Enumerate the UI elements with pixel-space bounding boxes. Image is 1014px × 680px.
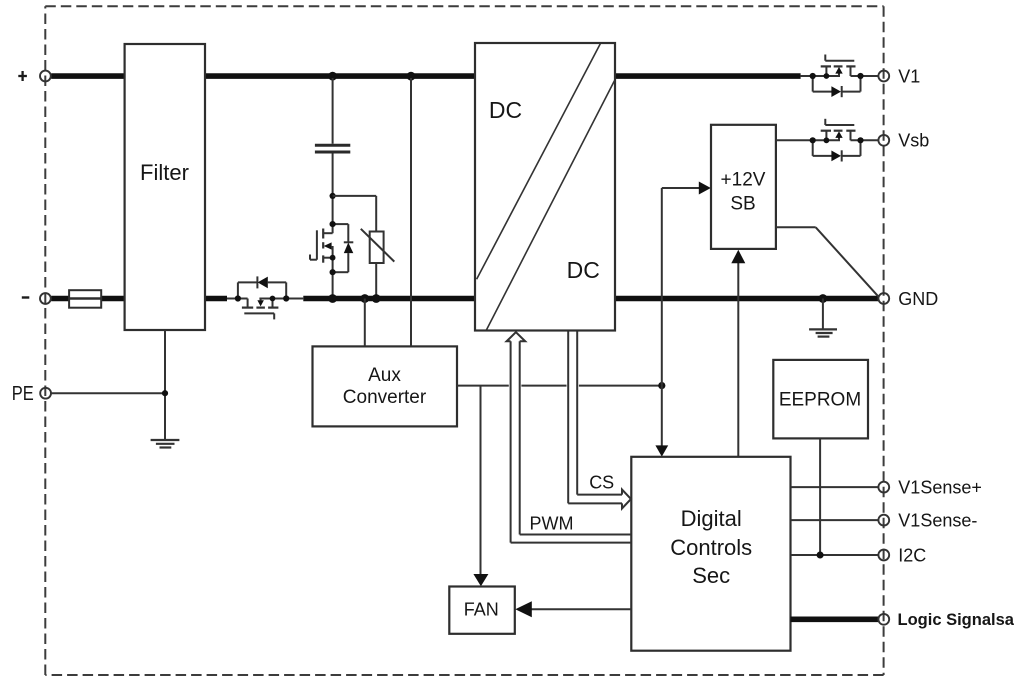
svg-text:EEPROM: EEPROM	[779, 390, 861, 411]
terminal Logic Signals	[878, 614, 889, 625]
wire: C1 to Q2 junction	[332, 154, 334, 234]
wire: junction down to Digital Controls	[661, 386, 663, 446]
wire: - rail to Aux Converter	[364, 299, 366, 347]
svg-text:V1: V1	[898, 66, 920, 86]
wire: + rail to Aux Converter	[410, 78, 412, 346]
wire: Digital Controls to +12V SB bottom	[737, 263, 739, 457]
node: C1 / varistor branch junction	[330, 193, 336, 199]
node: top rail / aux feed junction	[407, 72, 416, 81]
wire: I2C	[791, 554, 879, 556]
wire: junction up and to +12V SB input	[662, 188, 700, 386]
svg-text:V1Sense+: V1Sense+	[898, 478, 982, 498]
svg-text:DC: DC	[489, 97, 522, 123]
node: aux output junction	[658, 382, 665, 389]
svg-text:GND: GND	[898, 289, 938, 309]
junction PE/earth	[162, 390, 168, 396]
terminal +	[40, 71, 51, 82]
transistor Q2 (vertical MOSFET) leads	[323, 233, 332, 298]
svg-text:+12V: +12V	[721, 170, 766, 191]
EEPROM block	[773, 360, 868, 439]
terminal V1	[878, 71, 889, 82]
wire: Digital Controls to FAN	[531, 608, 631, 610]
wire: PE terminal to junction	[51, 392, 165, 394]
wire: EEPROM to I2C line	[819, 438, 821, 555]
wire: V1Sense-	[791, 519, 879, 521]
wire: varistor to - rail	[375, 263, 377, 299]
transistor Q1 gate	[244, 313, 274, 319]
wire: - input to fuse (thick)	[51, 296, 70, 302]
svg-text:Logic Signalsa: Logic Signalsa	[898, 611, 1014, 629]
wire: Logic Signals (thick)	[791, 616, 879, 622]
transistor Q2 gate	[310, 230, 317, 259]
transistor Q4 body arrow	[835, 131, 842, 138]
svg-text:Filter: Filter	[140, 160, 189, 185]
wire: top rail down to capacitor C1	[332, 78, 334, 144]
node: Q1 source tie	[270, 296, 276, 302]
wire: branch to varistor RV1	[333, 196, 377, 232]
FAN block	[449, 587, 515, 634]
wire: branch down to FAN	[480, 386, 482, 575]
svg-text:I2C: I2C	[898, 545, 926, 565]
earth ground symbol (secondary)	[809, 329, 837, 336]
transistor Q1 (inrush MOSFET on - rail) wires	[227, 299, 303, 307]
label -	[22, 296, 30, 298]
arrow into Digital Controls (down)	[655, 445, 668, 456]
wire: Aux Converter output (with crossover gaps)	[457, 385, 662, 387]
wire: +12V SB to Vsb MOSFET	[776, 139, 840, 141]
transistor Q4 (Vsb ORing MOSFET)	[826, 131, 878, 141]
arrow into +12V SB (right)	[699, 182, 711, 195]
svg-text:CS: CS	[589, 473, 614, 493]
transistor Q3 body arrow	[835, 67, 842, 74]
svg-text:PWM: PWM	[530, 513, 574, 533]
arrow into +12V SB (up)	[731, 250, 745, 263]
node: EEPROM on I2C	[817, 552, 824, 559]
svg-text:Converter: Converter	[343, 387, 427, 408]
node: Q2 source	[330, 269, 336, 275]
node: Q4 left	[810, 137, 816, 143]
wire: - rail Filter to Q1 (thick)	[205, 296, 227, 302]
diode D3 triangle	[831, 86, 841, 97]
svg-text:Sec: Sec	[692, 563, 730, 588]
terminal -	[40, 293, 51, 304]
label +	[18, 71, 27, 81]
wire: + input rail (thick) left of Filter	[51, 73, 124, 79]
svg-text:FAN: FAN	[464, 599, 499, 619]
wire: GND rail to earth	[822, 299, 824, 330]
wire: CS hollow signal (DC/DC to Digital Controls)	[568, 332, 631, 509]
node: Q1 drain junction	[235, 295, 241, 301]
diode D1 triangle	[258, 277, 268, 289]
node: Q2 body tie	[330, 255, 336, 261]
diode D3 (Q3 body diode) loop	[813, 76, 861, 97]
svg-text:Vsb: Vsb	[898, 131, 929, 151]
node: aux - feed on rail	[360, 294, 369, 303]
wire: GND rail DC/DC to GND terminal (thick)	[615, 296, 878, 302]
node: Q3 right	[857, 73, 863, 79]
transistor Q3 gate	[825, 55, 854, 61]
transistor Q4 gate	[825, 119, 854, 125]
terminal I2C	[878, 550, 889, 561]
diode D1 (Q1 body diode) loop	[238, 276, 286, 298]
terminal GND	[878, 293, 889, 304]
wire: V1Sense+	[791, 486, 879, 488]
Aux Converter block	[313, 346, 458, 426]
Filter block	[125, 44, 205, 330]
node: top rail / C1 junction	[328, 72, 337, 81]
wire: +12V SB return and diagonal to GND	[776, 227, 879, 296]
node: Q4 right	[857, 137, 863, 143]
node: Q3 left	[810, 73, 816, 79]
terminal Vsb	[878, 135, 889, 146]
node: Q1 loop right junction	[283, 295, 289, 301]
fuse F1	[69, 290, 101, 308]
wire: PWM hollow signal (Digital Controls to DC/DC)	[507, 332, 632, 542]
svg-text:Aux: Aux	[368, 365, 401, 386]
arrow into FAN (left)	[515, 601, 532, 617]
svg-text:SB: SB	[730, 194, 755, 215]
transistor Q1 channel bars	[242, 307, 279, 309]
terminal V1Sense-	[878, 515, 889, 526]
node: Q2 source on - rail	[328, 294, 337, 303]
capacitor C1	[315, 145, 350, 152]
node: varistor on - rail	[372, 294, 381, 303]
varistor RV1	[361, 229, 395, 263]
diode D2 triangle	[344, 243, 354, 254]
earth ground symbol (chassis)	[151, 440, 180, 448]
wire: fuse to Filter (thick)	[101, 296, 125, 302]
terminal PE	[40, 388, 51, 399]
wire: - rail Q1 to DC/DC (thick)	[303, 296, 475, 302]
svg-text:Controls: Controls	[670, 535, 752, 560]
arrow into FAN (down)	[473, 574, 488, 586]
node: Q4 drain	[824, 137, 830, 143]
svg-text:Digital: Digital	[681, 506, 742, 531]
svg-text:DC: DC	[567, 257, 600, 283]
svg-text:V1Sense-: V1Sense-	[898, 511, 977, 531]
wire: Filter to earth / PE junction	[164, 330, 166, 440]
terminal V1Sense+	[878, 482, 889, 493]
transistor Q2 channel bars	[322, 229, 324, 263]
svg-text:PE: PE	[12, 383, 34, 405]
diode D4 (Q4 body diode) loop	[813, 140, 861, 161]
wire: + rail Filter to DC/DC (thick)	[205, 73, 475, 79]
DC/DC converter block U1	[475, 43, 615, 331]
transistor Q2 body arrow	[324, 242, 332, 249]
transistor Q3 (V1 ORing MOSFET)	[801, 66, 879, 76]
+12V SB block	[711, 125, 776, 249]
Digital Controls Sec block	[631, 457, 790, 651]
wire: V1 rail DC/DC output (thick)	[615, 73, 801, 79]
node: Q3 drain	[824, 73, 830, 79]
node: GND rail earth junction	[819, 294, 828, 303]
transistor Q1 body arrow	[257, 300, 264, 306]
diode D2 (Q2 body diode) loop	[333, 224, 354, 272]
node: Q2 drain	[330, 221, 336, 227]
diode D4 triangle	[831, 151, 841, 162]
